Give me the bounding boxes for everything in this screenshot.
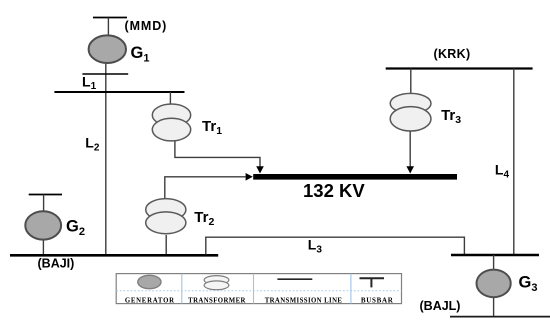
legend transmission line symbol	[277, 278, 312, 280]
line L4	[513, 69, 515, 256]
svg-text:TRANSMISSION LINE: TRANSMISSION LINE	[265, 298, 343, 305]
bus line KRK	[386, 67, 533, 69]
busbar BAJL	[451, 254, 539, 257]
line L3	[206, 237, 465, 254]
busbar terminal above G2	[29, 194, 62, 196]
busbar BAJI	[10, 254, 218, 257]
arrowhead Tr3 to bus	[406, 166, 414, 173]
bus line below G3	[450, 316, 550, 318]
svg-text:(BAJI): (BAJI)	[38, 257, 75, 271]
wire BAJL bus to G3	[493, 255, 495, 270]
transformer Tr2	[146, 199, 186, 234]
wire G3 down	[493, 298, 495, 317]
legend busbar symbol	[360, 278, 385, 287]
legend divider 1	[181, 274, 183, 304]
arrowhead Tr2 to bus	[246, 173, 253, 181]
arrowhead Tr1 to bus	[256, 166, 264, 173]
busbar L1	[82, 73, 128, 75]
legend transformer symbol	[204, 276, 229, 290]
svg-text:(MMD): (MMD)	[125, 19, 168, 33]
svg-text:132 KV: 132 KV	[303, 180, 365, 201]
wire bus to Tr1	[169, 92, 171, 105]
transformer Tr3	[390, 93, 431, 131]
legend divider 2	[253, 274, 255, 304]
wire Tr3 to 132KV bus	[409, 131, 411, 166]
legend box	[116, 274, 401, 304]
svg-text:TRANSFORMER: TRANSFORMER	[188, 298, 246, 305]
legend row separator (dashed)	[116, 290, 401, 292]
wire Tr2 to 132KV bus	[165, 177, 246, 199]
wire Tr2 to BAJI bus	[165, 235, 167, 255]
wire terminal to G2	[43, 195, 45, 212]
busbar terminal above G1	[93, 17, 127, 19]
wire Tr1 to 132KV bus	[175, 141, 260, 166]
generator G2	[25, 211, 61, 239]
bus line MMD substation	[54, 91, 184, 93]
svg-text:(KRK): (KRK)	[434, 47, 471, 61]
generator G3	[477, 270, 511, 298]
busbar 132 KV	[253, 174, 457, 180]
generator G1	[89, 35, 126, 63]
wire G2 to BAJI bus	[42, 240, 44, 255]
transformer Tr1	[152, 104, 190, 141]
wire KRK bus to Tr3	[410, 69, 412, 95]
wire terminal to G1	[107, 18, 109, 36]
svg-text:GENERATOR: GENERATOR	[125, 298, 175, 305]
legend generator symbol	[138, 275, 161, 288]
legend divider 3	[350, 274, 352, 304]
wire G1 down / line L2	[105, 64, 107, 255]
svg-text:BUSBAR: BUSBAR	[361, 297, 394, 305]
svg-text:(BAJL): (BAJL)	[420, 299, 461, 313]
